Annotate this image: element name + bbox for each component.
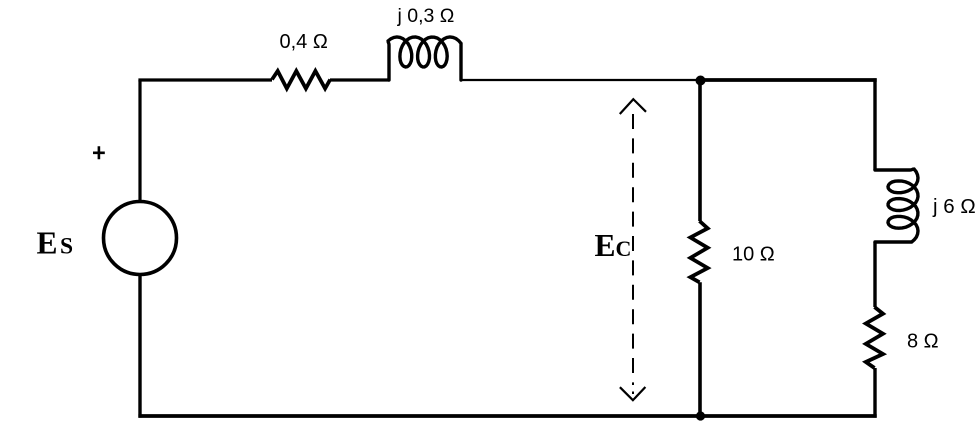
resistor 8 ohm bbox=[866, 307, 883, 368]
wire source bottom to bottom-left corner bbox=[138, 274, 141, 418]
wire right vertical middle bbox=[873, 242, 876, 307]
inductor j 6 ohm bbox=[875, 169, 918, 242]
svg-text:0,4 Ω: 0,4 Ω bbox=[280, 31, 328, 53]
inductor j 0,3 ohm bbox=[388, 37, 461, 80]
svg-text:8 Ω: 8 Ω bbox=[907, 331, 939, 353]
arrowhead top bbox=[620, 99, 646, 114]
resistor 10 ohm bbox=[690, 221, 707, 282]
node junction bottom bbox=[696, 411, 705, 420]
node junction top bbox=[696, 76, 706, 86]
wire right vertical lower bbox=[873, 368, 876, 418]
svg-text:j 0,3 Ω: j 0,3 Ω bbox=[397, 5, 455, 27]
wire bottom horizontal bbox=[138, 414, 876, 418]
wire node to top-right corner bbox=[700, 78, 877, 82]
resistor 0,4 ohm bbox=[272, 71, 330, 89]
plus polarity mark bbox=[93, 146, 105, 159]
wire top-left horizontal bbox=[138, 78, 272, 81]
svg-text:j 6 Ω: j 6 Ω bbox=[932, 195, 976, 218]
voltage arrow Ec dashed line bbox=[632, 114, 634, 385]
wire left vertical top (source to top-left corner) bbox=[138, 80, 141, 201]
wire inductor to node (thin) bbox=[461, 79, 700, 81]
wire right vertical upper bbox=[873, 78, 876, 170]
wire middle branch upper bbox=[698, 78, 702, 221]
wire between resistor and inductor bbox=[330, 78, 389, 81]
arrowhead bottom bbox=[620, 387, 646, 400]
wire middle branch lower bbox=[698, 282, 702, 416]
svg-text:10 Ω: 10 Ω bbox=[732, 244, 775, 266]
voltage source Es circle bbox=[104, 202, 177, 275]
